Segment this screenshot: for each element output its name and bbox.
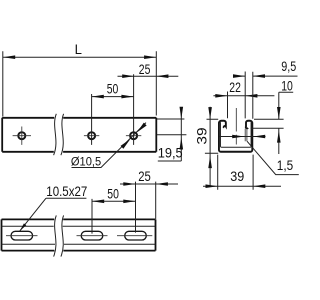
svg-text:L: L — [75, 42, 83, 57]
svg-text:39: 39 — [230, 169, 244, 184]
svg-text:10.5x27: 10.5x27 — [46, 184, 87, 199]
svg-text:50: 50 — [107, 186, 119, 201]
svg-text:19,5: 19,5 — [158, 146, 183, 161]
svg-text:9,5: 9,5 — [281, 59, 296, 74]
svg-text:1,5: 1,5 — [277, 158, 294, 173]
svg-text:10: 10 — [281, 79, 293, 94]
svg-text:25: 25 — [139, 62, 151, 77]
svg-text:25: 25 — [138, 169, 151, 184]
svg-text:22: 22 — [229, 80, 241, 95]
svg-text:39: 39 — [194, 127, 209, 145]
svg-text:Ø10,5: Ø10,5 — [71, 155, 101, 169]
svg-text:50: 50 — [107, 82, 119, 97]
